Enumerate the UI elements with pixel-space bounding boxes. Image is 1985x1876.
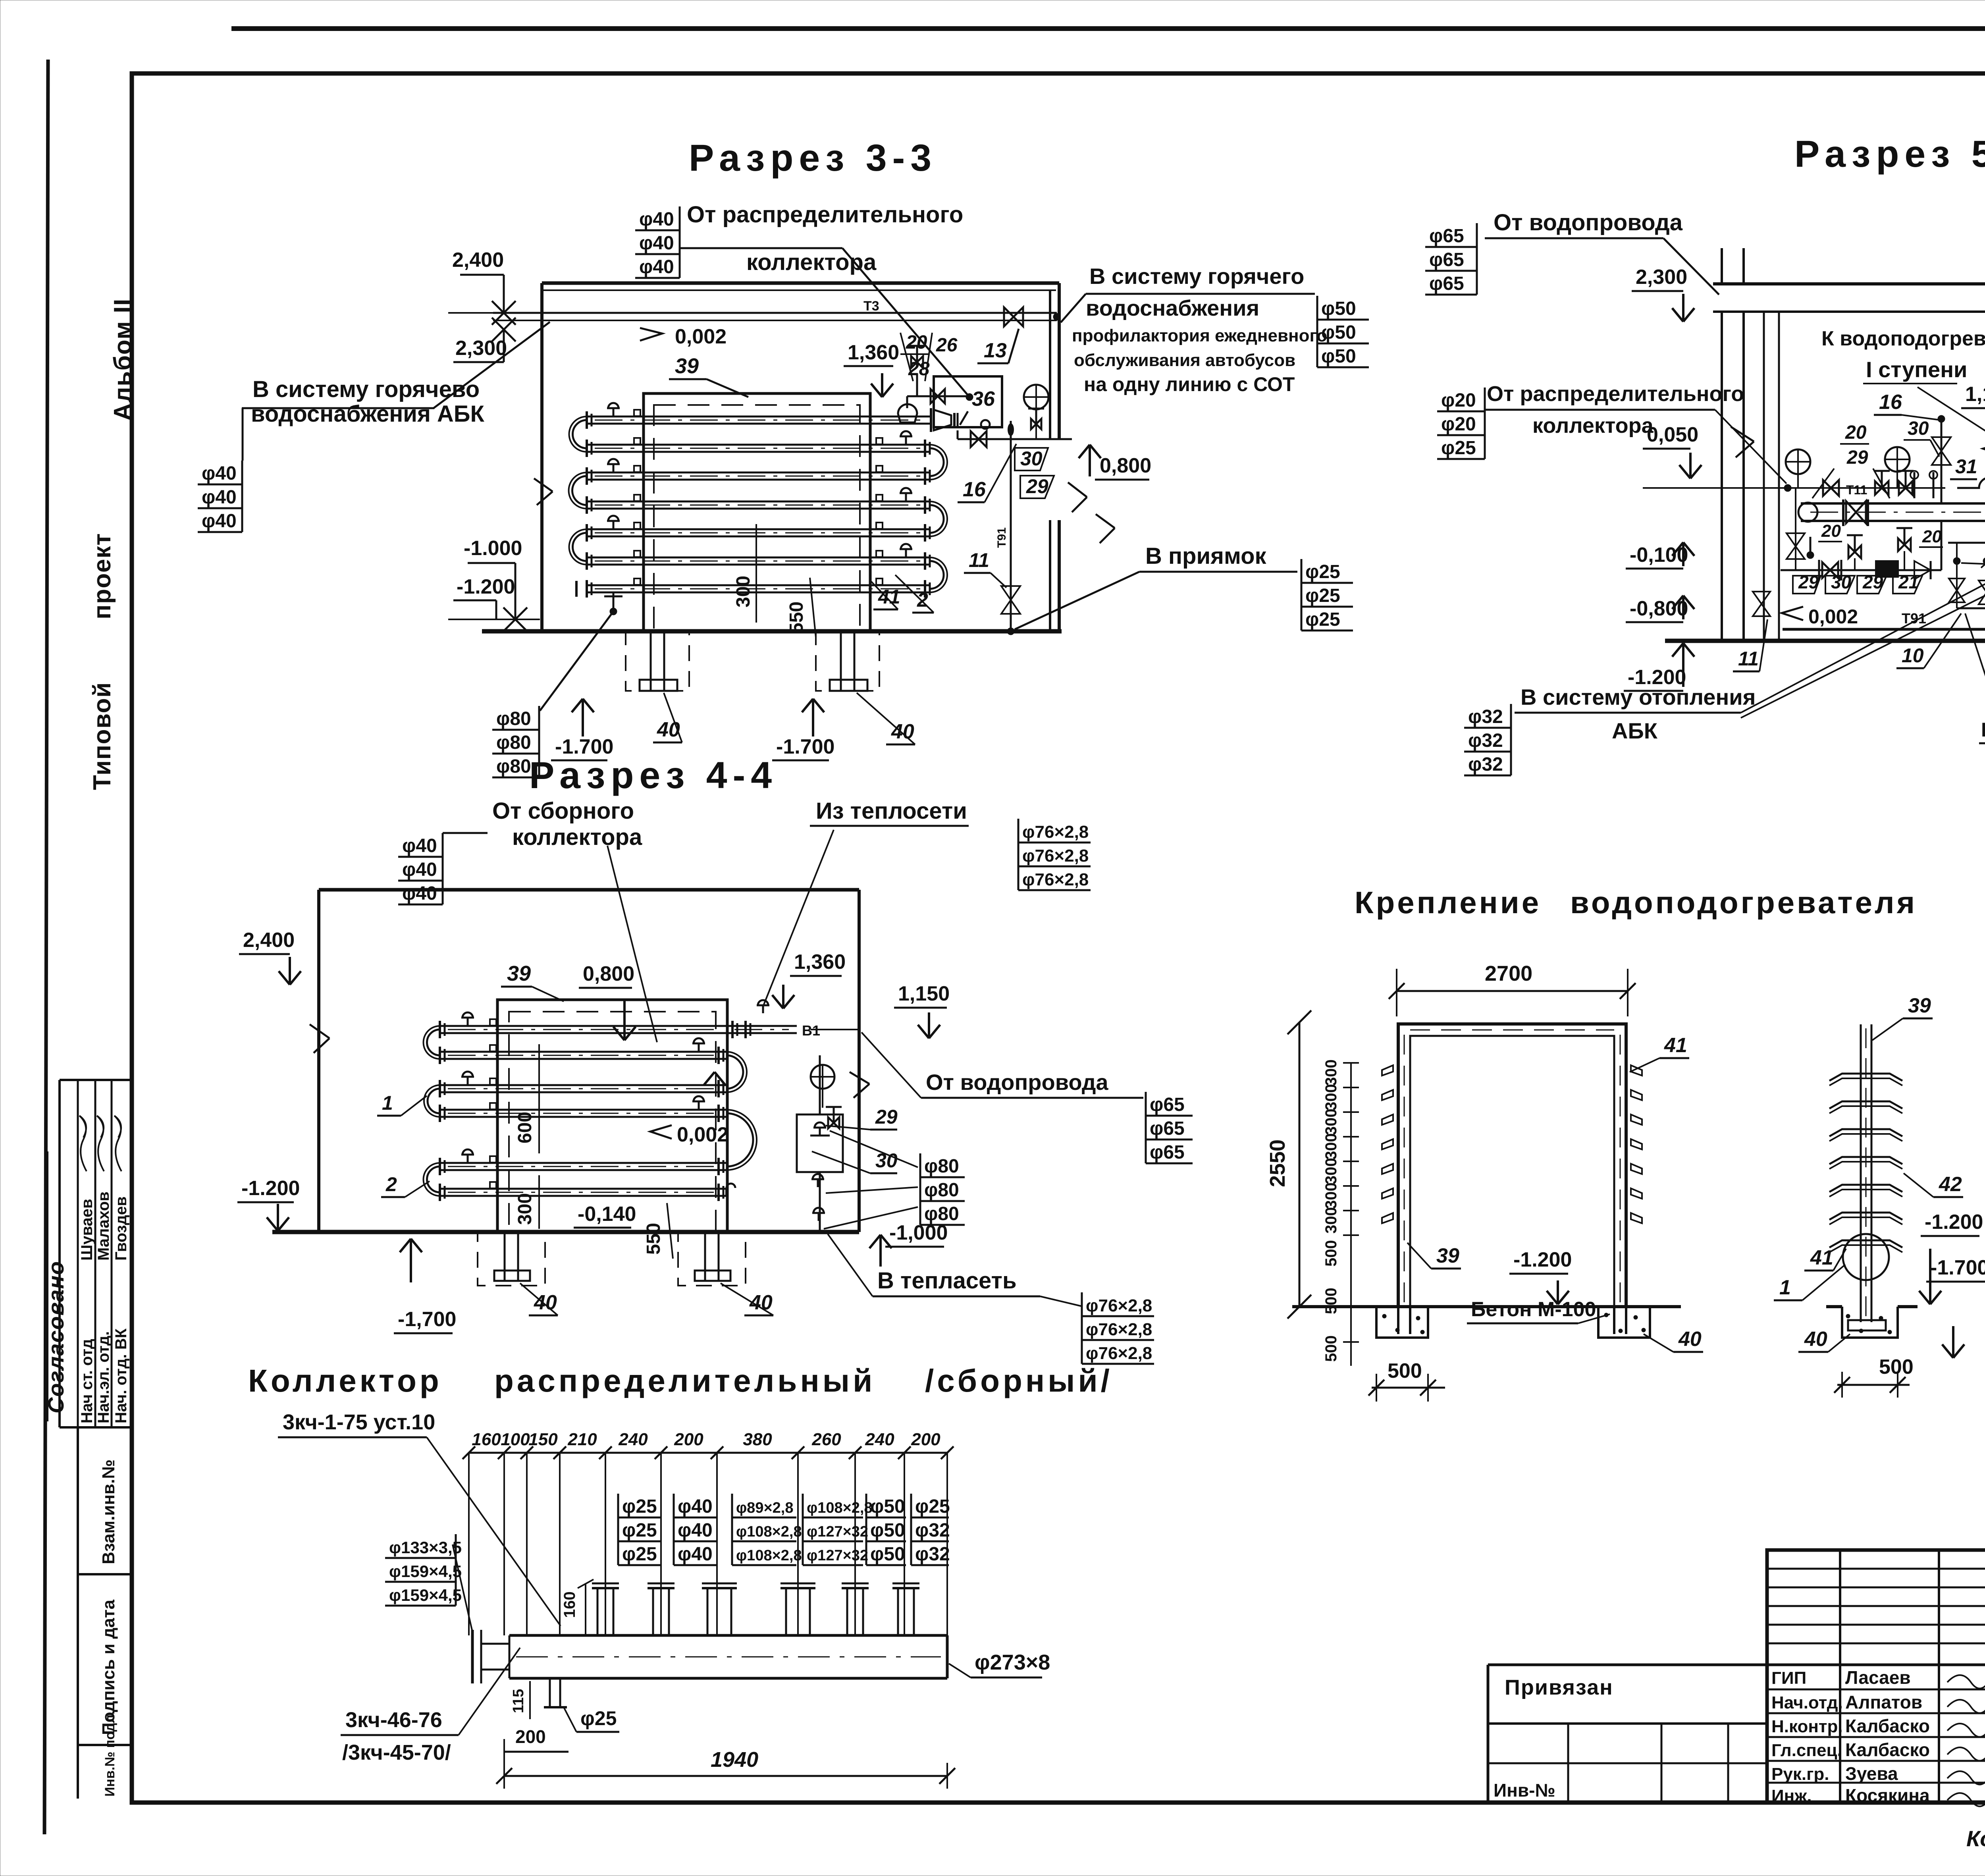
room 4-4 floor <box>272 1230 859 1234</box>
svg-text:Бетон М-100: Бетон М-100 <box>1471 1298 1596 1321</box>
water heater support frame 39 outline <box>644 393 870 631</box>
svg-text:Нач.отд.: Нач.отд. <box>1771 1693 1843 1712</box>
elevation -1,700 (4-4) <box>410 1239 412 1282</box>
svg-text:41: 41 <box>878 586 900 608</box>
legs below floor into pits <box>1397 1307 1399 1334</box>
svg-text:0,002: 0,002 <box>677 1123 728 1146</box>
room wall section 3-3: right wall double line <box>1049 290 1051 439</box>
left wall break 4-4 <box>310 1024 330 1038</box>
svg-text:-0,140: -0,140 <box>578 1203 636 1226</box>
elevation 0,800 mark right of wall <box>1089 445 1091 476</box>
floor line 5-5 <box>1665 639 1985 643</box>
svg-text:2: 2 <box>917 589 928 611</box>
support frame 39 (4-4) <box>497 1000 727 1232</box>
svg-text:φ50: φ50 <box>1321 298 1356 319</box>
svg-text:φ127×32: φ127×32 <box>807 1547 868 1564</box>
svg-text:φ40: φ40 <box>202 511 237 532</box>
hot water pipe T3 along ceiling <box>493 312 1057 314</box>
collector box right (4-4) <box>797 1114 843 1172</box>
valve 13 on pipe T3 <box>1004 307 1023 326</box>
svg-text:обслуживания автобусов: обслуживания автобусов <box>1074 351 1295 370</box>
svg-text:Разрез 5-5: Разрез 5-5 <box>1794 133 1985 175</box>
dimension 160 rotated near stub <box>585 1584 586 1635</box>
svg-text:φ32: φ32 <box>1468 754 1503 775</box>
svg-text:Гл.спец.: Гл.спец. <box>1771 1741 1842 1760</box>
gauge P right <box>1885 447 1910 472</box>
drain riser T91 <box>1010 439 1012 631</box>
svg-text:От распределительного: От распределительного <box>1487 382 1744 406</box>
svg-text:300: 300 <box>1322 1059 1340 1086</box>
svg-text:2550: 2550 <box>1266 1139 1289 1187</box>
svg-text:2700: 2700 <box>1485 962 1532 985</box>
svg-text:Альбом II: Альбом II <box>109 298 137 421</box>
svg-text:29: 29 <box>1026 475 1048 497</box>
room floor line <box>482 629 1062 634</box>
svg-text:От водопровода: От водопровода <box>926 1070 1108 1095</box>
svg-text:Нач.эл. отд.: Нач.эл. отд. <box>95 1331 112 1423</box>
tube bundle 4-4 <box>440 1025 727 1027</box>
elevation -1.700 marks under supports <box>582 699 584 737</box>
svg-text:φ25: φ25 <box>622 1544 657 1565</box>
svg-text:300: 300 <box>1322 1182 1340 1209</box>
margin box Подпись и дата <box>78 1744 132 1746</box>
svg-text:41: 41 <box>1664 1034 1687 1057</box>
flanges 4-4 <box>439 1021 441 1038</box>
leader from label to dirt box 36 <box>680 247 842 249</box>
floor stub under finned pipe <box>1826 1305 1842 1308</box>
shell flanged valve <box>1842 499 1844 526</box>
dimension 300 vertical (4-4) <box>538 1175 540 1229</box>
svg-text:Т91: Т91 <box>995 527 1008 548</box>
room 4-4 left wall <box>317 890 320 1232</box>
left wall break mark <box>1731 427 1754 442</box>
svg-text:-1,700: -1,700 <box>398 1308 456 1331</box>
svg-text:Т3: Т3 <box>863 299 879 314</box>
elevation -1,000 (4-4) <box>879 1235 882 1267</box>
svg-text:-1,000: -1,000 <box>889 1221 948 1244</box>
svg-text:Малахов: Малахов <box>95 1192 112 1261</box>
support legs below floor (section 3-3) <box>650 631 652 691</box>
vertical dimension 2550 <box>1299 1022 1301 1307</box>
svg-text:φ40: φ40 <box>639 233 674 254</box>
hooks on left leg <box>1382 1065 1393 1076</box>
svg-text:φ40: φ40 <box>402 883 437 904</box>
svg-text:200: 200 <box>911 1430 940 1449</box>
svg-text:Разрез 3-3: Разрез 3-3 <box>689 137 937 179</box>
sheet outer top edge line <box>231 26 1985 31</box>
sheet outer left edge line <box>44 60 48 1834</box>
svg-text:φ25: φ25 <box>1305 609 1340 630</box>
svg-text:-1.200: -1.200 <box>457 575 515 598</box>
dimension 600 vertical (4-4) <box>538 1044 540 1153</box>
svg-text:3кч-46-76: 3кч-46-76 <box>345 1708 442 1732</box>
svg-text:300: 300 <box>1322 1133 1340 1160</box>
svg-text:2,300: 2,300 <box>455 337 507 360</box>
air valve cluster above dirt box <box>907 395 971 397</box>
tube flanges right <box>924 440 926 457</box>
svg-text:500: 500 <box>1322 1335 1340 1362</box>
svg-text:φ80: φ80 <box>496 708 531 729</box>
finned pipe side view <box>1860 1024 1862 1322</box>
svg-text:φ65: φ65 <box>1150 1094 1185 1115</box>
leader from сборный коллектор to bundle <box>607 846 657 1042</box>
svg-text:φ25: φ25 <box>915 1496 950 1517</box>
svg-text:φ65: φ65 <box>1429 249 1464 270</box>
floor line under frame <box>1292 1305 1681 1308</box>
svg-text:φ32: φ32 <box>915 1520 950 1541</box>
gate valves on lower line <box>1848 546 1861 558</box>
right U-bends of tube bundle <box>930 448 944 476</box>
svg-text:13: 13 <box>984 339 1007 362</box>
svg-text:φ133×3,5: φ133×3,5 <box>389 1538 462 1557</box>
svg-text:φ50: φ50 <box>1321 346 1356 367</box>
svg-text:1: 1 <box>1779 1276 1791 1299</box>
lower distribution line with fittings <box>1781 569 1941 571</box>
svg-text:проект: проект <box>89 533 116 619</box>
left wall break mark <box>534 478 553 492</box>
thermometers on line <box>1914 472 1916 498</box>
dirt box 36 <box>934 376 1002 427</box>
svg-text:200: 200 <box>674 1430 703 1449</box>
reducer cone at top tube outlet <box>934 410 951 430</box>
svg-text:φ40: φ40 <box>678 1544 713 1565</box>
svg-text:0,050: 0,050 <box>1647 423 1698 446</box>
room 4-4 top line <box>319 888 859 892</box>
svg-text:2,300: 2,300 <box>1636 266 1687 289</box>
svg-text:Нач ст. отд: Нач ст. отд <box>78 1339 96 1423</box>
svg-text:От распределительного: От распределительного <box>687 202 963 228</box>
junction dot where T3 meets right wall <box>1053 313 1060 320</box>
water heater I stage horizontal shell <box>1801 502 1985 505</box>
svg-text:φ76×2,8: φ76×2,8 <box>1022 822 1089 842</box>
svg-text:100: 100 <box>501 1430 530 1449</box>
vent fitting at top right of bundle <box>762 1005 764 1013</box>
dimension 550 (4-4) <box>667 1203 673 1259</box>
svg-text:380: 380 <box>743 1430 772 1449</box>
vent fittings on tubes <box>613 408 615 416</box>
valve on drain line <box>971 431 987 447</box>
leaders from теплоснабжение to risers <box>1965 613 1985 735</box>
svg-text:От водопровода: От водопровода <box>1494 210 1683 235</box>
svg-text:115: 115 <box>510 1689 527 1713</box>
valve 11 on riser <box>1001 586 1020 600</box>
svg-text:распределительный: распределительный <box>494 1363 875 1398</box>
svg-text:φ40: φ40 <box>639 256 674 278</box>
valves row on line 1229 <box>1823 480 1839 496</box>
svg-text:Коллектор: Коллектор <box>248 1363 442 1398</box>
svg-text:300: 300 <box>515 1193 536 1225</box>
svg-text:φ76×2,8: φ76×2,8 <box>1022 870 1089 889</box>
svg-text:30: 30 <box>1020 447 1043 470</box>
svg-text:16: 16 <box>963 478 986 501</box>
svg-text:Гвоздев: Гвоздев <box>112 1196 130 1261</box>
left extension Привязан table <box>1488 1664 1767 1666</box>
gauge P left <box>1786 449 1810 474</box>
svg-text:φ76×2,8: φ76×2,8 <box>1022 846 1089 866</box>
svg-text:36: 36 <box>972 388 995 411</box>
svg-text:500: 500 <box>1322 1288 1340 1314</box>
svg-text:φ80: φ80 <box>924 1156 959 1177</box>
right concrete pit <box>1598 1307 1650 1338</box>
svg-text:Косякина: Косякина <box>1845 1785 1930 1806</box>
svg-text:300: 300 <box>1322 1158 1340 1184</box>
room wall section 3-3: ceiling <box>542 281 1059 285</box>
riser with valve 30 above shell <box>1941 419 1943 503</box>
svg-text:160: 160 <box>561 1591 578 1618</box>
svg-text:Привязан: Привязан <box>1505 1675 1613 1699</box>
svg-text:водоснабжения АБК: водоснабжения АБК <box>251 401 484 427</box>
svg-text:29: 29 <box>1846 447 1868 468</box>
room wall section 3-3: left wall <box>540 283 543 631</box>
svg-text:20: 20 <box>1821 521 1841 541</box>
svg-text:-1.700: -1.700 <box>1930 1256 1985 1279</box>
svg-text:39: 39 <box>1908 994 1931 1017</box>
svg-text:Копировал: Копировал <box>1966 1826 1985 1851</box>
collector body pipe <box>509 1634 947 1637</box>
svg-text:φ40: φ40 <box>402 835 437 856</box>
top tube extension right <box>727 1025 797 1027</box>
svg-text:φ273×8: φ273×8 <box>975 1650 1050 1674</box>
svg-text:240: 240 <box>618 1430 648 1449</box>
svg-text:550: 550 <box>786 602 807 633</box>
leader из теплосети to bundle fitting <box>763 830 834 1006</box>
svg-text:Н.контр.: Н.контр. <box>1771 1717 1843 1736</box>
support frame front view <box>1398 1024 1626 1307</box>
dimension chain 300x7 <box>1350 1063 1352 1235</box>
svg-text:φ40: φ40 <box>202 463 237 484</box>
svg-text:3кч-1-75 уст.10: 3кч-1-75 уст.10 <box>283 1410 435 1434</box>
svg-text:φ65: φ65 <box>1150 1142 1185 1163</box>
right wall break mark <box>1068 482 1087 497</box>
svg-text:40: 40 <box>1804 1328 1827 1351</box>
extension lines down to collector <box>468 1453 470 1635</box>
svg-text:φ65: φ65 <box>1429 226 1464 247</box>
svg-text:-1.200: -1.200 <box>1925 1211 1983 1234</box>
svg-text:2,400: 2,400 <box>452 249 504 272</box>
fittings along riser under box <box>819 1128 821 1136</box>
svg-text:Типовой: Типовой <box>89 682 116 790</box>
svg-text:1,150: 1,150 <box>1965 383 1985 406</box>
foot plate finned pipe <box>1848 1320 1886 1330</box>
svg-text:30: 30 <box>875 1149 898 1172</box>
line T2 with label <box>1957 607 1985 609</box>
svg-text:водоподогревателя: водоподогревателя <box>1570 885 1917 920</box>
gauge on water inlet (4-4) <box>811 1065 834 1089</box>
svg-text:φ80: φ80 <box>496 732 531 753</box>
svg-text:20: 20 <box>1922 527 1942 546</box>
concrete speckle dots <box>1382 1314 1386 1318</box>
svg-text:Взам.инв.№: Взам.инв.№ <box>99 1460 118 1564</box>
pit of finned pipe <box>1842 1307 1898 1338</box>
branch stubs on top of collector <box>597 1588 599 1635</box>
svg-text:20: 20 <box>906 332 927 353</box>
svg-text:φ65: φ65 <box>1429 273 1464 294</box>
svg-text:φ50: φ50 <box>870 1544 905 1565</box>
svg-text:600: 600 <box>515 1112 536 1143</box>
svg-text:φ25: φ25 <box>580 1707 617 1729</box>
approval table in left margin <box>60 1079 132 1081</box>
svg-text:500: 500 <box>1388 1359 1422 1382</box>
svg-text:1940: 1940 <box>711 1748 758 1772</box>
title block outer box <box>1767 1550 1985 1803</box>
left U-bends 4-4 <box>427 1030 440 1055</box>
svg-text:500: 500 <box>1322 1240 1340 1267</box>
heating system manifold right <box>1948 542 1985 544</box>
svg-text:φ25: φ25 <box>622 1496 657 1517</box>
signature table grid <box>1766 1550 1769 1804</box>
svg-text:В систему горячего: В систему горячего <box>1089 264 1304 289</box>
svg-text:φ40: φ40 <box>202 487 237 508</box>
svg-text:ГИП: ГИП <box>1771 1668 1806 1688</box>
svg-text:300: 300 <box>1322 1207 1340 1234</box>
svg-text:39: 39 <box>1436 1244 1459 1267</box>
svg-text:/сборный/: /сборный/ <box>925 1363 1113 1398</box>
svg-text:φ50: φ50 <box>870 1520 905 1541</box>
svg-text:0,002: 0,002 <box>675 325 727 348</box>
svg-text:300: 300 <box>1322 1084 1340 1111</box>
svg-text:40: 40 <box>657 718 680 741</box>
svg-text:От сборного: От сборного <box>492 798 634 824</box>
drain line 0.800 level <box>958 438 1072 440</box>
right U-bends 4-4 <box>727 1055 743 1089</box>
svg-text:φ20: φ20 <box>1441 390 1476 411</box>
svg-text:2: 2 <box>385 1173 397 1195</box>
svg-text:-1.700: -1.700 <box>776 735 834 758</box>
svg-text:30: 30 <box>1908 418 1929 439</box>
svg-text:Т91: Т91 <box>1902 610 1926 627</box>
svg-text:Шуваев: Шуваев <box>78 1199 96 1261</box>
gauge P1 with stem <box>1024 385 1048 409</box>
svg-text:В систему теплоснабжения: В систему теплоснабжения <box>1981 719 1985 741</box>
svg-text:В приямок: В приямок <box>1145 543 1267 569</box>
svg-text:1,360: 1,360 <box>794 951 846 974</box>
svg-text:φ40: φ40 <box>678 1496 713 1517</box>
svg-text:31: 31 <box>1955 455 1977 478</box>
svg-text:-1.200: -1.200 <box>1513 1248 1572 1271</box>
line T91 bottom <box>1783 628 1985 631</box>
svg-text:В1: В1 <box>802 1022 820 1039</box>
svg-text:φ32: φ32 <box>1468 730 1503 751</box>
room 4-4 right wall <box>858 890 861 1232</box>
leader from drain to φ80 stack <box>540 611 613 711</box>
long diagonal leaders to unit <box>1741 567 1985 713</box>
svg-text:φ25: φ25 <box>1305 561 1340 582</box>
svg-text:φ108×2,8: φ108×2,8 <box>807 1500 873 1516</box>
pipe size stack φ40 x3 (left riser) <box>242 408 244 461</box>
collector top dimension chain <box>469 1452 947 1454</box>
svg-text:2,400: 2,400 <box>243 929 295 952</box>
svg-text:29: 29 <box>875 1106 898 1128</box>
svg-text:26: 26 <box>936 335 958 356</box>
svg-text:Рук.гр.: Рук.гр. <box>1771 1764 1829 1784</box>
ceiling slab band 5-5 <box>1713 282 1985 285</box>
svg-text:0,002: 0,002 <box>1808 605 1858 628</box>
svg-text:φ32: φ32 <box>1468 706 1503 727</box>
svg-text:0,800: 0,800 <box>583 962 634 985</box>
svg-text:210: 210 <box>567 1430 597 1449</box>
signature rows labels and names <box>1767 1689 1985 1691</box>
svg-text:240: 240 <box>865 1430 894 1449</box>
svg-text:500: 500 <box>1879 1355 1914 1379</box>
svg-text:φ32: φ32 <box>915 1544 950 1565</box>
blowdown valve pair on left <box>1795 488 1796 570</box>
svg-text:φ76×2,8: φ76×2,8 <box>1086 1320 1152 1339</box>
svg-text:φ76×2,8: φ76×2,8 <box>1086 1344 1152 1363</box>
svg-text:φ40: φ40 <box>678 1520 713 1541</box>
svg-text:профилактория ежедневного: профилактория ежедневного <box>1072 326 1327 345</box>
svg-text:φ65: φ65 <box>1150 1118 1185 1139</box>
svg-text:φ127×32: φ127×32 <box>807 1523 868 1540</box>
svg-text:-1.200: -1.200 <box>241 1177 300 1200</box>
svg-text:φ20: φ20 <box>1441 414 1476 435</box>
svg-text:11: 11 <box>1738 648 1759 670</box>
svg-text:Ласаев: Ласаев <box>1845 1667 1911 1688</box>
svg-text:42: 42 <box>1939 1173 1962 1196</box>
svg-text:Зуева: Зуева <box>1845 1763 1898 1784</box>
svg-text:φ50: φ50 <box>870 1496 905 1517</box>
blowdown valve bottom left wall <box>1751 488 1752 629</box>
svg-text:φ108×2,8: φ108×2,8 <box>736 1547 802 1564</box>
svg-text:Алпатов: Алпатов <box>1845 1692 1922 1712</box>
bottom drain stub of collector <box>549 1678 551 1707</box>
heat exchanger tube bundle section 3-3 <box>587 416 930 418</box>
risers with valves to T2 <box>1956 543 1958 608</box>
approval signatures scribbles <box>79 1116 87 1171</box>
svg-text:16: 16 <box>1879 391 1902 414</box>
ball float on finned pipe <box>1843 1234 1889 1280</box>
svg-text:φ25: φ25 <box>1305 585 1340 606</box>
svg-text:В систему отопления: В систему отопления <box>1521 684 1756 710</box>
left wall layered lines <box>1721 248 1723 284</box>
svg-text:В систему горячево: В систему горячево <box>252 376 480 402</box>
meter unit |X| on lower line <box>1818 560 1820 580</box>
check valve <box>1914 561 1931 579</box>
right wall break 4-4 <box>850 1072 869 1084</box>
svg-text:коллектора: коллектора <box>746 249 877 275</box>
svg-text:Т11: Т11 <box>1846 483 1867 497</box>
svg-text:10: 10 <box>1902 644 1924 667</box>
svg-text:коллектора: коллектора <box>512 824 642 850</box>
svg-text:200: 200 <box>515 1726 546 1747</box>
collector left flange <box>471 1630 474 1683</box>
svg-text:1,150: 1,150 <box>898 982 950 1005</box>
svg-text:20: 20 <box>1845 422 1867 443</box>
dimension 550 vertical <box>810 578 816 637</box>
svg-text:на одну линию с СОТ: на одну линию с СОТ <box>1084 373 1295 395</box>
svg-text:Разрез 4-4: Разрез 4-4 <box>529 754 777 796</box>
dimension 300 vertical <box>755 524 757 623</box>
svg-text:Инв.№ подл.: Инв.№ подл. <box>102 1711 118 1797</box>
svg-text:Крепление: Крепление <box>1355 885 1541 920</box>
svg-text:39: 39 <box>507 962 531 985</box>
thermometer pin on drain line <box>1008 423 1014 436</box>
svg-text:300: 300 <box>1322 1109 1340 1135</box>
svg-text:В тепласеть: В тепласеть <box>877 1268 1017 1294</box>
svg-text:φ40: φ40 <box>639 209 674 230</box>
margin box Взам.инв.№ <box>77 1427 79 1799</box>
tube flanges left <box>586 411 588 429</box>
svg-text:φ89×2,8: φ89×2,8 <box>736 1500 793 1516</box>
svg-text:1,360: 1,360 <box>848 341 899 364</box>
svg-text:Инж.: Инж. <box>1771 1786 1812 1806</box>
filter box <box>1875 560 1899 578</box>
svg-text:φ50: φ50 <box>1321 322 1356 343</box>
svg-text:11: 11 <box>969 549 989 571</box>
vent fittings 4-4 <box>467 1018 469 1026</box>
svg-text:водоснабжения: водоснабжения <box>1086 295 1259 320</box>
svg-text:коллектора: коллектора <box>1532 414 1654 438</box>
left end cap bottom tube <box>575 581 578 597</box>
